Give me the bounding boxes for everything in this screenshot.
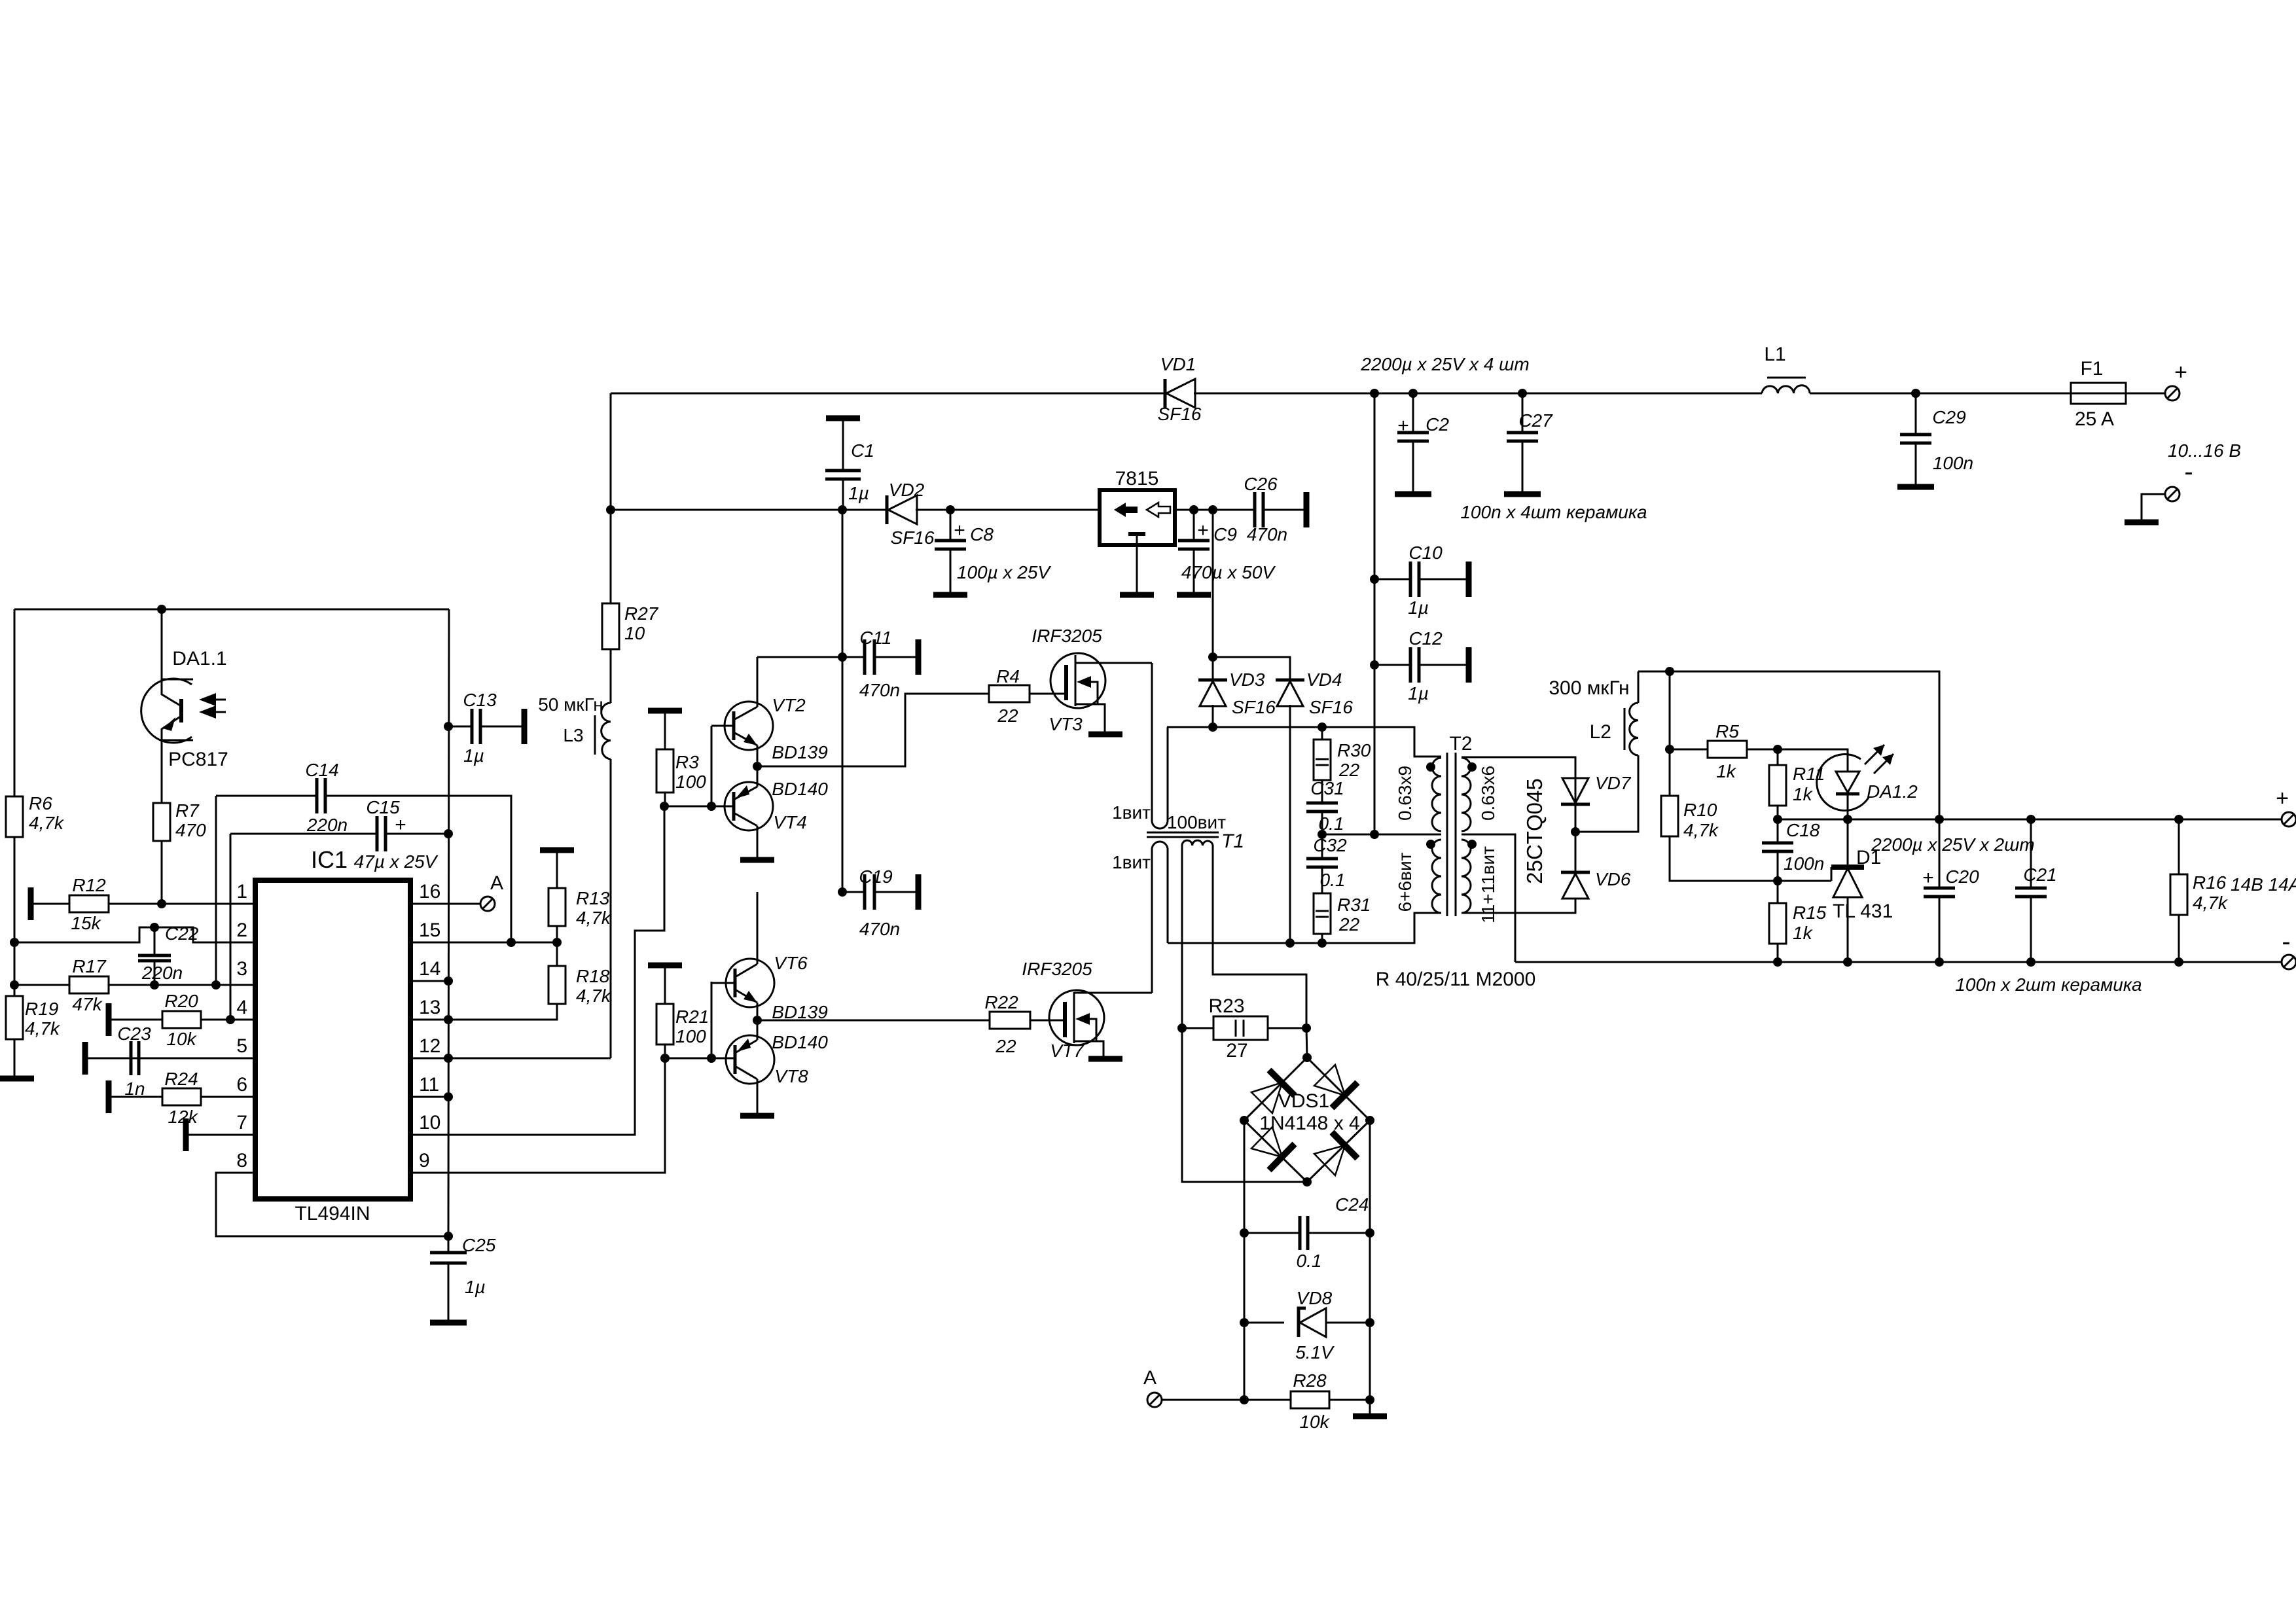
svg-text:470: 470: [175, 820, 206, 840]
svg-text:VD3: VD3: [1229, 669, 1265, 690]
svg-text:BD140: BD140: [772, 1032, 828, 1052]
svg-text:T1: T1: [1221, 830, 1244, 852]
svg-text:+: +: [1197, 520, 1209, 541]
svg-text:4,7k: 4,7k: [25, 1018, 61, 1039]
capacitor C13 1u: [444, 722, 453, 731]
node R15 bottom: [1773, 957, 1782, 967]
node bridge corners: [1302, 1053, 1312, 1062]
svg-text:4,7k: 4,7k: [576, 908, 612, 928]
node VT2 VT4 base junction: [707, 802, 716, 811]
capacitor C15 47u electrolytic: [230, 834, 232, 1020]
node R7 pin1: [157, 899, 166, 908]
resistor R5 1k: [1708, 741, 1747, 758]
svg-text:25CTQ045: 25CTQ045: [1522, 778, 1547, 883]
svg-text:+: +: [2276, 786, 2289, 811]
transistor VT8 BD140: [726, 1035, 774, 1084]
svg-text:A: A: [490, 872, 503, 894]
svg-text:+: +: [1922, 867, 1934, 889]
svg-text:6: 6: [236, 1074, 247, 1096]
resistor R4 22: [989, 685, 1030, 702]
svg-text:F1: F1: [2080, 358, 2103, 380]
svg-text:4,7k: 4,7k: [2193, 893, 2229, 913]
svg-text:R28: R28: [1293, 1370, 1327, 1391]
wire T2 sec bottom to VD6: [1462, 898, 1575, 913]
wire base vertical lower: [711, 982, 713, 1058]
wire emitters to R22: [757, 1020, 990, 1022]
svg-text:C2: C2: [1426, 414, 1449, 435]
svg-text:100µ x 25V: 100µ x 25V: [957, 562, 1052, 582]
svg-text:DA1.2: DA1.2: [1867, 781, 1918, 802]
svg-text:1вит: 1вит: [1112, 852, 1151, 872]
diode VD1 SF16: [1164, 379, 1167, 408]
wire top-left horizontal rail: [14, 609, 449, 611]
node C31 C32 center tap: [1318, 830, 1327, 839]
rail bar R3 top: [648, 708, 682, 714]
node junction DA1.1 collector: [157, 605, 166, 614]
T2 secondary winding 0.63x6: [1462, 758, 1471, 831]
svg-text:C26: C26: [1244, 474, 1278, 494]
svg-text:VT3: VT3: [1049, 714, 1083, 734]
svg-text:R17: R17: [72, 956, 107, 976]
ground R19: [0, 1076, 34, 1082]
wire 15V rail: [611, 509, 886, 511]
svg-text:T2: T2: [1449, 733, 1472, 755]
svg-text:22: 22: [1338, 760, 1360, 780]
node R5 R11 LED: [1773, 745, 1782, 754]
capacitor C1 1u: [838, 505, 847, 514]
wire x2100 column: [1374, 393, 1376, 834]
T2 polarity dots: [1426, 762, 1435, 772]
wire minus output rail: [1515, 961, 2282, 963]
svg-text:R18: R18: [576, 966, 610, 986]
svg-text:R24: R24: [164, 1069, 198, 1089]
svg-text:C8: C8: [970, 524, 994, 544]
transformer T1 secondary 100вит: [1182, 840, 1306, 1028]
svg-text:C25: C25: [462, 1235, 496, 1255]
resistor R13 4,7k: [540, 847, 574, 853]
capacitor C26 470n: [1208, 505, 1217, 514]
svg-text:11+11вит: 11+11вит: [1478, 846, 1498, 923]
wire pin8 loop to C25: [216, 1173, 448, 1236]
capacitor C14 220n: [215, 796, 217, 985]
wire top output rail: [611, 393, 1165, 395]
resistor R12 15k: [69, 895, 109, 912]
svg-text:22: 22: [1338, 914, 1360, 935]
svg-text:13: 13: [419, 997, 440, 1018]
wire x933 lower: [610, 759, 612, 1058]
capacitor C27: [1522, 393, 1524, 433]
node L2 R10 top: [1665, 667, 1674, 676]
svg-text:7815: 7815: [1115, 468, 1159, 490]
svg-text:2200µ x 25V x 2шт: 2200µ x 25V x 2шт: [1871, 834, 2035, 855]
node terminal plus output: [2165, 386, 2179, 401]
resistor R7 470: [153, 803, 170, 841]
diode VDS1a: [1269, 1070, 1295, 1096]
capacitor C19 470n: [838, 887, 847, 897]
node C18 bottom: [1773, 876, 1782, 885]
svg-text:C32: C32: [1313, 835, 1347, 855]
svg-text:50 мкГн: 50 мкГн: [538, 694, 603, 715]
svg-text:220n: 220n: [306, 815, 348, 835]
svg-text:10...16 В: 10...16 В: [2168, 440, 2241, 461]
svg-text:R21: R21: [675, 1007, 709, 1027]
resistor R21 100: [664, 965, 666, 1004]
diode VD6: [1561, 871, 1590, 874]
svg-text:+: +: [1397, 415, 1409, 437]
wire VD junction to L2: [1575, 755, 1638, 832]
rail bar R21 top: [648, 963, 682, 969]
svg-text:VT2: VT2: [772, 695, 806, 715]
capacitor C20 2200u electrolytic: [1935, 815, 1944, 824]
svg-text:C27: C27: [1518, 410, 1553, 431]
node VT6 VT8 base junction: [707, 1054, 716, 1063]
capacitor C2 2200u: [1412, 393, 1414, 433]
svg-text:C9: C9: [1213, 524, 1237, 544]
svg-text:100n x 2шт керамика: 100n x 2шт керамика: [1955, 974, 2142, 995]
wire emitters to R4: [757, 694, 989, 766]
svg-text:10: 10: [624, 623, 645, 643]
resistor R20 10k: [162, 1011, 201, 1028]
capacitor C11 470n: [838, 652, 847, 662]
node R3 bottom: [660, 802, 669, 811]
resistor R6 4,7k: [6, 796, 23, 837]
node terminal minus output: [2165, 487, 2179, 501]
node VD6 VD7 junction: [1571, 827, 1580, 836]
diode VD3 SF16: [1198, 679, 1227, 682]
diode D1 TL431: [1847, 819, 1849, 867]
svg-text:7: 7: [236, 1112, 247, 1133]
diode VD2 SF16: [886, 495, 889, 524]
node R21 bottom: [660, 1054, 670, 1063]
wire pin1 row: [31, 903, 255, 905]
T2 primary winding 6+6вит: [1432, 840, 1441, 913]
wire pin7 row: [186, 1134, 255, 1136]
svg-text:6+6вит: 6+6вит: [1395, 852, 1415, 912]
ground VT4: [740, 857, 774, 863]
transformer T1 primary top 1вит: [1152, 663, 1168, 829]
transistor VT2 BD139: [725, 702, 773, 750]
svg-text:C31: C31: [1310, 778, 1344, 798]
svg-text:3: 3: [236, 958, 247, 980]
node R23 right: [1302, 1024, 1311, 1033]
svg-text:VD4: VD4: [1306, 669, 1342, 690]
node C15 x685: [444, 829, 453, 838]
rail bar R12 left: [28, 887, 34, 920]
svg-text:300 мкГн: 300 мкГн: [1549, 677, 1629, 699]
svg-text:L3: L3: [563, 725, 583, 745]
capacitor C9 470u electrolytic: [1189, 505, 1198, 514]
wire x1853 from C26 down: [1212, 510, 1214, 680]
node pin3 left rail: [10, 980, 19, 990]
node terminal minus 14V: [2282, 955, 2296, 969]
svg-text:1k: 1k: [1716, 761, 1737, 781]
svg-text:27: 27: [1226, 1040, 1247, 1061]
svg-text:BD139: BD139: [772, 1002, 828, 1022]
node R5 left: [1665, 745, 1674, 754]
svg-text:C10: C10: [1408, 543, 1443, 563]
ground VT8: [740, 1113, 774, 1119]
svg-text:SF16: SF16: [1309, 697, 1353, 717]
svg-text:PC817: PC817: [168, 749, 228, 770]
svg-text:470n: 470n: [1247, 524, 1287, 544]
svg-text:R23: R23: [1208, 995, 1244, 1017]
wire pin10 to R3: [410, 806, 664, 1135]
node A terminal pin16: [480, 897, 495, 911]
svg-text:10k: 10k: [1299, 1412, 1330, 1432]
svg-text:VT6: VT6: [774, 953, 808, 973]
capacitor C29 100n: [1915, 393, 1917, 435]
wire pin5 row: [85, 1058, 255, 1060]
ground VT7: [1088, 1056, 1122, 1062]
rail bar R20 left: [106, 1003, 112, 1036]
svg-text:R5: R5: [1715, 721, 1739, 741]
diode VD8 5.1V zener: [1240, 1318, 1249, 1327]
wire pin11: [410, 1096, 448, 1098]
svg-text:9: 9: [419, 1150, 430, 1171]
rail bar R24 left: [106, 1080, 112, 1113]
svg-text:1: 1: [236, 881, 247, 902]
inductor L2 300uH: [1630, 703, 1638, 755]
svg-text:+: +: [395, 814, 406, 836]
wire x1287 column: [842, 510, 844, 892]
svg-text:+: +: [2174, 360, 2187, 385]
svg-text:4,7k: 4,7k: [576, 986, 612, 1006]
wire feedback top: [1638, 671, 1939, 819]
transformer T1 primary bottom 1вит: [1152, 842, 1168, 993]
light arrows into DA1.1: [204, 700, 226, 712]
svg-text:0.1: 0.1: [1320, 870, 1346, 890]
wire R7 to pin1: [161, 841, 163, 904]
ground C8: [933, 592, 967, 598]
svg-text:C22: C22: [165, 923, 199, 944]
svg-text:R6: R6: [29, 793, 52, 813]
svg-text:C12: C12: [1408, 628, 1443, 649]
svg-text:VD6: VD6: [1595, 869, 1631, 889]
T2 core: [1447, 753, 1456, 916]
svg-text:100вит: 100вит: [1167, 812, 1226, 832]
svg-text:DA1.1: DA1.1: [172, 648, 226, 669]
node C22 top: [150, 923, 159, 932]
resistor R10 4,7k: [1661, 796, 1678, 836]
svg-text:1µ: 1µ: [465, 1277, 486, 1297]
wire pin3 row: [14, 984, 255, 986]
svg-text:C20: C20: [1945, 866, 1979, 887]
ground C25: [430, 1320, 467, 1326]
svg-text:10: 10: [419, 1112, 440, 1133]
svg-text:C14: C14: [305, 760, 338, 780]
wire pin15 row: [410, 942, 557, 944]
svg-text:C1: C1: [851, 440, 874, 461]
capacitor C22 220n: [154, 927, 156, 955]
fuse F1 25A: [2071, 383, 2126, 404]
capacitor C25 1u: [444, 1232, 453, 1241]
wire bridge left rail: [1244, 1120, 1246, 1400]
ground VT3: [1088, 732, 1122, 738]
capacitor C21: [2026, 815, 2036, 824]
ground C9: [1177, 592, 1211, 598]
ground 7815: [1136, 545, 1138, 592]
transformer T1 core: [1147, 832, 1219, 837]
svg-text:4,7k: 4,7k: [1683, 820, 1719, 840]
svg-text:R15: R15: [1793, 902, 1827, 923]
svg-text:100n: 100n: [1933, 453, 1973, 473]
ground R28: [1353, 1414, 1387, 1419]
resistor R27 10: [602, 603, 619, 649]
wire to LED branch: [1778, 749, 1848, 772]
node TL431 anode: [1843, 957, 1852, 967]
svg-text:R20: R20: [164, 991, 198, 1011]
svg-text:1n: 1n: [124, 1079, 145, 1099]
svg-text:C24: C24: [1335, 1194, 1369, 1215]
resistor R30 22: [1318, 722, 1327, 732]
svg-text:A: A: [1143, 1367, 1157, 1389]
svg-text:R3: R3: [675, 752, 699, 772]
svg-text:R22: R22: [984, 992, 1018, 1012]
svg-text:1k: 1k: [1793, 923, 1814, 943]
svg-text:SF16: SF16: [1232, 697, 1276, 717]
svg-text:100: 100: [675, 772, 706, 792]
ground minus output: [2125, 520, 2159, 526]
node VT2 VT4 emitters: [753, 762, 762, 771]
node VD3 VD4 top: [1208, 652, 1217, 662]
transistor VT3 IRF3205: [1050, 653, 1105, 708]
svg-text:C19: C19: [859, 866, 892, 887]
svg-text:R10: R10: [1683, 800, 1717, 820]
svg-text:VT7: VT7: [1050, 1041, 1085, 1061]
resistor R16 4,7k: [2174, 815, 2183, 824]
svg-text:VD1: VD1: [1160, 354, 1196, 374]
wire base vertical: [711, 726, 713, 806]
wire to VD4: [1213, 657, 1290, 680]
svg-text:1вит: 1вит: [1112, 802, 1151, 823]
svg-text:L2: L2: [1590, 721, 1611, 743]
svg-text:100n: 100n: [1784, 853, 1824, 874]
wire R5 R10 branch: [1669, 671, 1671, 796]
capacitor C10 1u: [1370, 575, 1379, 584]
svg-text:C23: C23: [117, 1024, 151, 1044]
svg-text:SF16: SF16: [891, 527, 935, 548]
wire pin16 to A: [410, 903, 480, 905]
diode bridge VDS1 1N4148 x 4: [1244, 1058, 1307, 1120]
T2 primary winding 0.63x9: [1432, 758, 1441, 831]
wire pin14: [410, 980, 448, 982]
svg-text:IRF3205: IRF3205: [1022, 959, 1092, 979]
transistor DA1.1 PC817 optocoupler: [161, 609, 163, 679]
capacitor C31 0.1: [1306, 803, 1338, 811]
svg-text:15: 15: [419, 919, 440, 941]
wire pin6 row: [109, 1096, 255, 1098]
svg-text:12: 12: [419, 1035, 440, 1057]
svg-text:IC1: IC1: [311, 846, 348, 873]
node terminal plus 14V: [2282, 812, 2296, 827]
node C14 pin3: [211, 980, 221, 990]
wire bridge right rail: [1369, 1120, 1371, 1414]
rail bar C23 left: [82, 1042, 88, 1075]
wire rail 1111 VD3 row: [1167, 727, 1441, 757]
svg-text:-: -: [2282, 927, 2290, 956]
svg-text:R11: R11: [1793, 764, 1825, 784]
svg-text:470n: 470n: [859, 680, 900, 700]
node LED plus-rail: [1843, 815, 1852, 824]
wire pin4 row: [109, 1019, 255, 1021]
svg-text:47k: 47k: [72, 994, 103, 1014]
svg-text:14: 14: [419, 958, 440, 980]
diode VDS1c: [1269, 1144, 1295, 1170]
led DA1.2: [1836, 772, 1859, 793]
svg-text:VD8: VD8: [1297, 1288, 1333, 1308]
node x2100 center tap: [1370, 830, 1379, 839]
transistor VT7 IRF3205: [1049, 990, 1104, 1045]
svg-text:BD140: BD140: [772, 779, 828, 799]
node pin2 left rail: [10, 938, 19, 947]
svg-text:25 A: 25 A: [2075, 408, 2114, 430]
wire R5 row: [1670, 749, 1708, 751]
wire center tap row: [1322, 834, 1441, 836]
svg-text:1µ: 1µ: [848, 483, 869, 503]
svg-text:0.1: 0.1: [1297, 1251, 1322, 1271]
svg-text:10k: 10k: [166, 1029, 197, 1049]
capacitor C23 1n: [131, 1041, 139, 1075]
node R31 bottom: [1318, 938, 1327, 948]
svg-text:VD2: VD2: [889, 480, 925, 500]
svg-text:5: 5: [236, 1035, 247, 1057]
diode VD4 SF16: [1276, 679, 1304, 682]
node C22 bottom: [150, 980, 159, 990]
svg-text:IRF3205: IRF3205: [1031, 626, 1102, 646]
resistor R15 1k: [1777, 881, 1779, 903]
svg-text:220n: 220n: [141, 963, 183, 983]
node terminal A bottom: [1147, 1393, 1162, 1407]
svg-text:C21: C21: [2023, 865, 2056, 885]
svg-text:R7: R7: [175, 800, 200, 821]
rail bar pin7: [183, 1118, 189, 1151]
node wire2 x933: [606, 505, 615, 514]
resistor R17 47k: [69, 976, 109, 993]
svg-text:C29: C29: [1932, 407, 1965, 427]
transistor VT4 BD140: [725, 782, 773, 830]
svg-text:470µ x 50V: 470µ x 50V: [1181, 562, 1276, 582]
svg-text:R16: R16: [2193, 872, 2227, 893]
svg-text:470n: 470n: [859, 919, 900, 939]
resistor R3 100: [664, 711, 666, 749]
wire T2 sec center tap to minus rail: [1462, 834, 1515, 962]
svg-text:R13: R13: [576, 888, 610, 908]
node VD4 rail1441: [1285, 938, 1295, 948]
wire VT2 collector to C11 node: [757, 656, 842, 658]
svg-text:100: 100: [675, 1026, 706, 1046]
T2 secondary winding 11+11вит: [1462, 840, 1471, 913]
svg-text:R 40/25/11 М2000: R 40/25/11 М2000: [1376, 969, 1536, 990]
svg-text:1k: 1k: [1793, 784, 1814, 804]
resistor R11 1k: [1777, 749, 1779, 765]
diode VDS1b: [1332, 1082, 1357, 1108]
svg-text:+: +: [954, 520, 965, 541]
resistor R18 4,7k: [556, 942, 558, 966]
svg-text:C13: C13: [463, 690, 497, 710]
diode VDS1d: [1332, 1132, 1357, 1158]
wire pin12 row: [410, 1058, 611, 1060]
svg-text:47µ x 25V: 47µ x 25V: [354, 851, 439, 872]
svg-text:1µ: 1µ: [1408, 683, 1429, 704]
svg-text:4: 4: [236, 997, 247, 1018]
svg-text:VT8: VT8: [774, 1066, 808, 1086]
svg-text:-: -: [2184, 457, 2193, 486]
resistor R28 10k: [1240, 1395, 1249, 1404]
wire pin2 row: [14, 927, 255, 942]
node top rail junctions: [1370, 389, 1379, 398]
svg-text:8: 8: [236, 1150, 247, 1171]
svg-text:22: 22: [995, 1036, 1016, 1056]
